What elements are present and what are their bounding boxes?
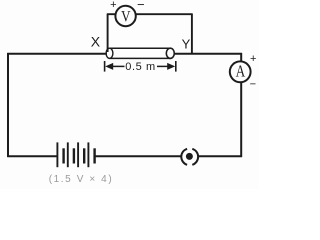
svg-text:X: X: [91, 33, 101, 49]
wire: main horizontal from right end of resistance wire to top-right corner: [174, 53, 242, 55]
wire: main horizontal from left corner to X end of wire: [7, 53, 107, 55]
dimension arrow 0.5 m : right end bar: [175, 61, 177, 72]
svg-text:V: V: [121, 9, 131, 26]
battery cell 3 short plate: [83, 148, 85, 163]
plug key K: right arc: [192, 149, 198, 165]
battery cell 4 short plate: [93, 148, 95, 163]
svg-text:0.5 m: 0.5 m: [125, 61, 156, 73]
svg-text:−: −: [137, 0, 145, 12]
dimension arrow 0.5 m : left arrowhead: [105, 63, 113, 70]
dimension arrow 0.5 m : left end bar: [104, 61, 106, 72]
svg-text:−: −: [250, 79, 256, 91]
dimension arrow 0.5 m : left line segment: [110, 65, 125, 67]
svg-text:A: A: [236, 62, 246, 81]
battery cell 3 long plate: [77, 142, 79, 167]
battery cell 2 long plate: [67, 142, 69, 167]
dimension arrow 0.5 m : right arrowhead: [167, 63, 175, 70]
wire: voltmeter branch right vertical (down to Y): [191, 14, 193, 53]
wire: voltmeter branch left vertical (from X up): [107, 14, 109, 52]
wire: right vertical through ammeter: [240, 53, 242, 157]
svg-text:Y: Y: [182, 37, 191, 52]
wire: bottom horizontal, left corner to battery: [7, 155, 57, 157]
svg-text:+: +: [110, 0, 116, 11]
resistance wire (potentiometer wire) body: [106, 48, 174, 58]
ammeter A1 circle: [230, 61, 251, 82]
svg-text:+: +: [250, 53, 256, 65]
wire: bottom horizontal, plug key to right corner: [198, 155, 242, 157]
wire: left vertical side of main loop: [7, 53, 9, 157]
battery cell 4 long plate: [87, 142, 89, 167]
plug key K: left arc: [181, 149, 187, 165]
battery cell 1 long plate: [56, 142, 58, 167]
voltmeter V1 circle: [115, 6, 135, 26]
battery cell 1 short plate: [62, 148, 64, 163]
svg-text:(1.5 V × 4): (1.5 V × 4): [49, 174, 114, 185]
dimension arrow 0.5 m : right line segment: [157, 65, 171, 67]
plug key K: center dot: [186, 153, 193, 160]
battery cell 2 short plate: [73, 148, 75, 163]
wire: voltmeter branch top horizontal: [107, 13, 193, 15]
wire: bottom horizontal, battery to plug key: [95, 155, 182, 157]
